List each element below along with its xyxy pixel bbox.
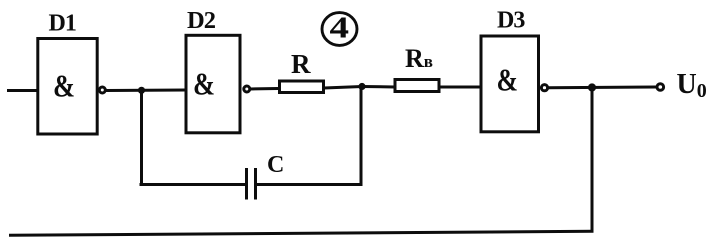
svg-text:&: & bbox=[193, 65, 215, 101]
svg-text:4: 4 bbox=[330, 10, 350, 44]
svg-text:R: R bbox=[291, 49, 311, 79]
svg-text:D3: D3 bbox=[497, 8, 525, 34]
svg-text:&: & bbox=[53, 67, 75, 103]
svg-text:D2: D2 bbox=[187, 7, 216, 34]
svg-text:C: C bbox=[267, 152, 284, 178]
svg-text:&: & bbox=[497, 61, 519, 97]
svg-text:D1: D1 bbox=[49, 11, 76, 37]
